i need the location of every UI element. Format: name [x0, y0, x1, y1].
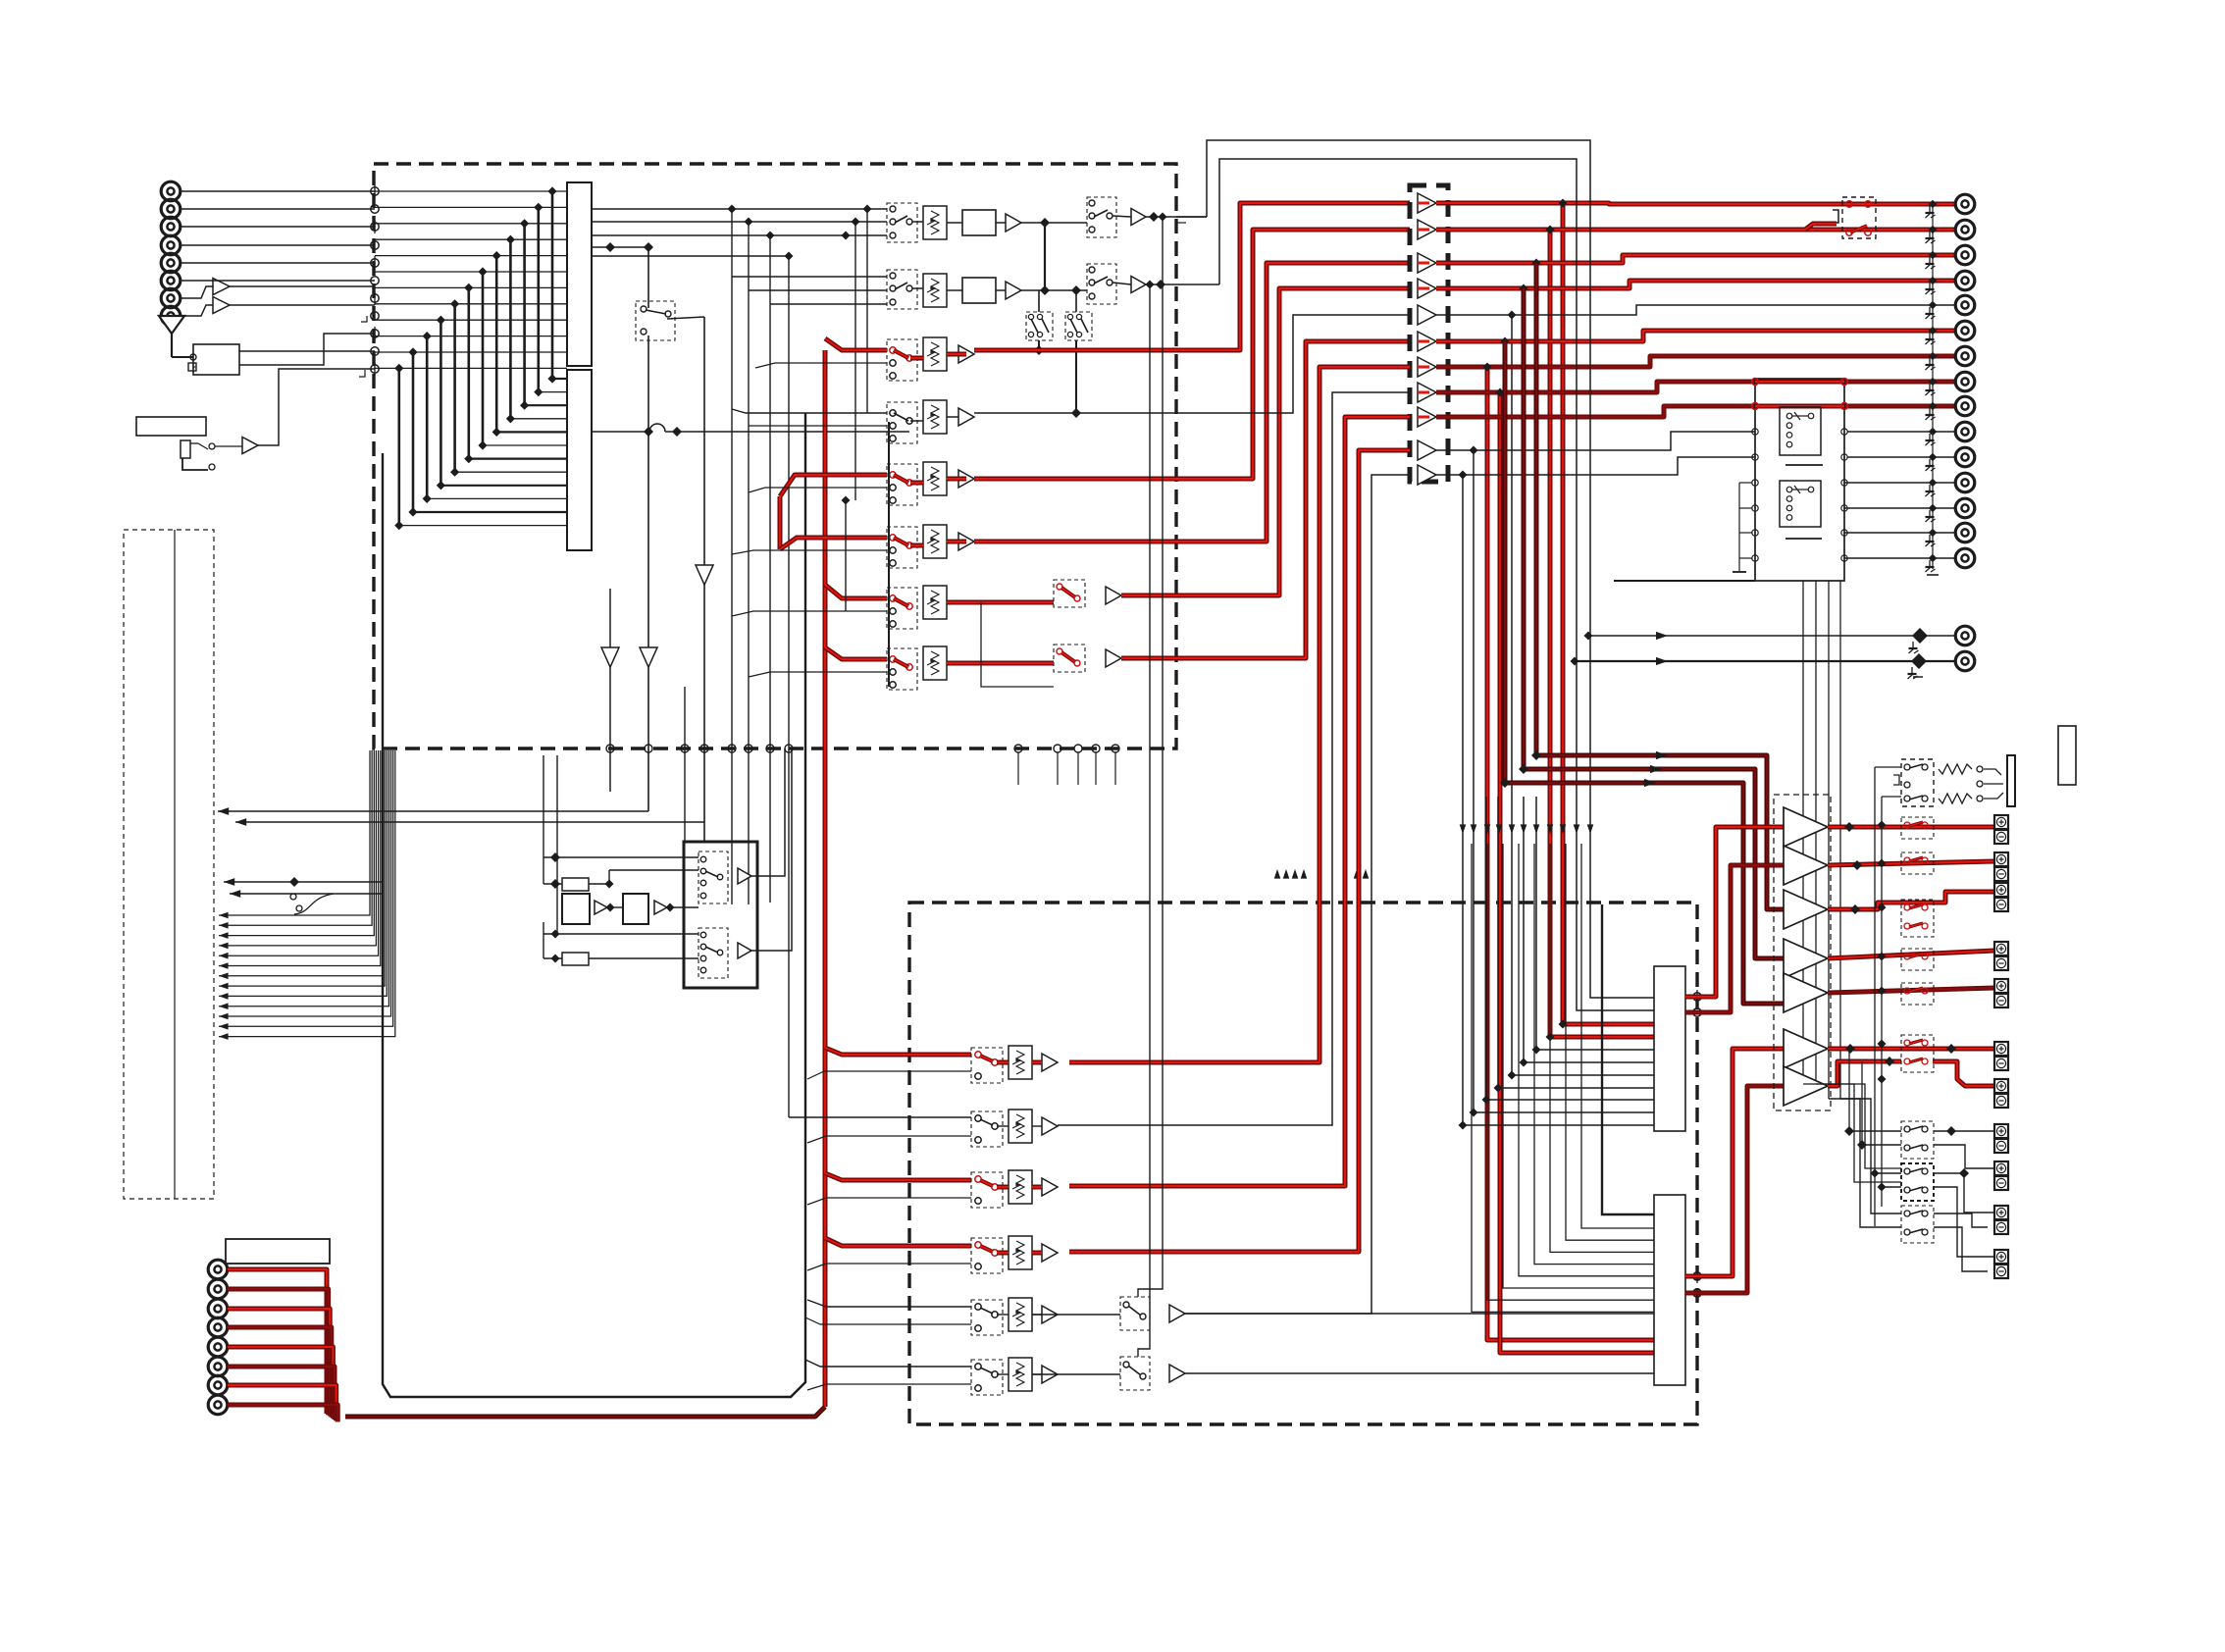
- dsp buffer y=1209: [1042, 1178, 1058, 1196]
- clock block: [623, 894, 648, 924]
- bottom RCA jack 7: [208, 1375, 228, 1395]
- matrix lower row 6: [483, 444, 567, 446]
- dsp row 1339 feeds: [807, 1300, 971, 1307]
- selector buffer 4: [1418, 279, 1436, 298]
- output RCA jack row 10: [1955, 422, 1975, 441]
- bottom RCA jack 1: [208, 1260, 228, 1279]
- output RCA jack row 15: [1955, 548, 1975, 568]
- antenna symbol: [159, 316, 184, 334]
- dsp input switch y=1147: [971, 1111, 1003, 1147]
- speaker terminal pair 3: [1994, 883, 2008, 897]
- amp5 output: [1828, 988, 1994, 993]
- dsp upper out to amp2: [1685, 865, 1784, 1012]
- amp3 output jog: [1828, 892, 1994, 909]
- headphone resistor 1: [1939, 764, 1972, 774]
- main-ch feed row to amp5: [1503, 341, 1508, 783]
- ground tick near pin row 376: [359, 370, 365, 377]
- speaker terminal pair 11: [1994, 1250, 2008, 1264]
- subwoofer jacks: [1955, 626, 1975, 645]
- output RCA jack row 9: [1955, 396, 1975, 416]
- selector row 1 drop vertical: [1563, 203, 1654, 1024]
- speaker terminal pair 8: [1994, 1124, 2008, 1138]
- relay out row to jack: [1844, 482, 1956, 484]
- wire U1b out: [230, 304, 375, 306]
- ground tick near pin row 322: [361, 316, 367, 322]
- dsp level resistor y=1339: [1009, 1298, 1032, 1331]
- dsp buffer y=1339: [1042, 1306, 1058, 1323]
- red feed row 610: [825, 585, 887, 598]
- matrix lower row 9: [440, 485, 567, 487]
- RCA input jack J4: [161, 235, 181, 255]
- amp1 output: [1828, 825, 1994, 830]
- dsp 2nd switch row 1339: [1120, 1297, 1150, 1330]
- matrix lower row 5: [496, 431, 567, 433]
- input buffer row y=484: [958, 470, 974, 488]
- dsp row 1082 red pair feed: [825, 1048, 971, 1055]
- selector row 9 output to jack row: [1436, 406, 1956, 417]
- power amp 3: [1784, 890, 1828, 929]
- dsp level resistor y=1082: [1009, 1046, 1032, 1079]
- speaker terminal pair 9: [1994, 1162, 2008, 1175]
- riser dsp row1276 to selector row10: [1069, 450, 1410, 1252]
- sysctl buffer A: [738, 868, 751, 884]
- speaker relay box 2: [1901, 852, 1934, 874]
- red vertical aux: [778, 496, 783, 549]
- dsp lower out to amp6: [1685, 1049, 1784, 1276]
- sysctl buffer B: [738, 943, 751, 958]
- riser row672 to selector row6: [1121, 341, 1410, 658]
- bottom RCA jack 3: [208, 1299, 228, 1318]
- oscillator rect 2: [562, 894, 590, 924]
- sysctl buffer small 2: [654, 901, 667, 914]
- black link rows 610-672 second stage: [981, 602, 1054, 687]
- rec out switch dashed: [1087, 264, 1116, 304]
- relay ground bracket: [1739, 482, 1752, 484]
- dsp level resistor y=1209: [1009, 1170, 1032, 1204]
- selector row 8 drop vertical: [1500, 392, 1654, 1353]
- subwoofer out row 2: [1575, 660, 1956, 662]
- wire S1 down to junction: [647, 336, 649, 432]
- dsp row 1400 feeds: [805, 1360, 971, 1367]
- amp6 output: [1828, 1047, 1994, 1052]
- speaker terminal pair 4: [1994, 942, 2008, 955]
- dsp input switch y=1339: [971, 1300, 1003, 1335]
- matrix column 10 vertical: [426, 336, 429, 499]
- amp7 relay to pair7: [1933, 1061, 1994, 1086]
- relay feeds upper: [1878, 821, 1887, 830]
- rec buffer amp: [1006, 214, 1021, 232]
- dsp buffer y=1147: [1042, 1117, 1058, 1135]
- wire sel A down: [1038, 340, 1040, 350]
- buffer amp U1b: [213, 297, 230, 314]
- relay out row to jack: [1844, 557, 1956, 559]
- wire antenna to tuner: [172, 356, 193, 358]
- selector row 3 drop vertical: [1532, 259, 1541, 268]
- output RCA jack row 14: [1955, 523, 1975, 542]
- bottom RCA jack 4: [208, 1317, 228, 1337]
- oscillator rect 3: [562, 953, 589, 965]
- selector buffer 11: [1418, 465, 1436, 485]
- speaker relay box 7: [1901, 1121, 1934, 1159]
- black feed row 610b: [732, 611, 887, 616]
- output RCA jack row 6: [1955, 321, 1975, 340]
- matrix lower row 12: [399, 525, 567, 527]
- sysctl switch dashed B: [699, 928, 728, 978]
- headphone label box: [2058, 726, 2076, 785]
- selector row 3 output to jack row: [1436, 255, 1956, 263]
- matrix column 12 vertical: [397, 368, 400, 525]
- relay bottom edge extension: [1614, 580, 1755, 582]
- speaker terminal pair 1: [1994, 815, 2008, 829]
- matrix column 8 vertical: [453, 304, 456, 472]
- power amp 4: [1784, 939, 1828, 978]
- input buffer row y=357: [958, 345, 974, 363]
- CPU bus fan: [219, 750, 370, 915]
- wire jack rows to connector column: [181, 190, 376, 192]
- long vertical from record out 1: [1176, 216, 1207, 218]
- relay out row to jack: [1844, 532, 1956, 534]
- input buffer row y=548: [958, 533, 974, 550]
- selector buffer 10: [1418, 440, 1436, 460]
- 2nd stage buffer row 610: [1106, 587, 1121, 604]
- down triangle buffer 2: [601, 647, 619, 667]
- input level resistor row y=357: [923, 337, 947, 371]
- speaker relay box 4: [1901, 949, 1934, 970]
- dsp buffer y=1082: [1042, 1054, 1058, 1071]
- relay out row to jack: [1844, 507, 1956, 509]
- down triangle buffer on vertical: [696, 565, 713, 585]
- down triangle buffer 3: [640, 647, 657, 667]
- sysctl outputs: [751, 749, 785, 876]
- input switch row y=357: [887, 339, 917, 381]
- dsp ic lower: [1654, 1195, 1685, 1385]
- wire boxB top link: [1075, 290, 1077, 312]
- wire U1a out: [230, 285, 375, 287]
- matrix column 5 vertical: [495, 256, 498, 433]
- power amp 5: [1784, 973, 1828, 1012]
- selector buffer 2: [1418, 220, 1436, 239]
- red feed row 672: [825, 647, 887, 659]
- relay red segment row 414: [1755, 404, 1844, 409]
- output mute rail: [1932, 204, 1934, 569]
- record select switch: [887, 270, 917, 309]
- selector row 6 drop vertical: [1501, 337, 1510, 346]
- selector buffer 9: [1418, 407, 1436, 427]
- relay unit outer block: [1755, 379, 1844, 581]
- amp7 feedback vertical: [1861, 1061, 1863, 1145]
- black feed row 548b: [732, 550, 887, 554]
- wire bus1 row D to vertical: [592, 255, 789, 257]
- dsp ic output pins upper: [1693, 993, 1701, 1001]
- rec level resistor: [923, 274, 947, 307]
- amp2 output: [1828, 861, 1994, 865]
- riser arrows through box edge: [1274, 869, 1281, 879]
- wire bus1 row B to record switch: [592, 221, 887, 223]
- matrix row 4 horizontal: [375, 238, 567, 240]
- bottom jack wire 3: [228, 1309, 330, 1416]
- output RCA jack row 7: [1955, 346, 1975, 366]
- front aux jack: [181, 440, 190, 458]
- matrix row 9 horizontal: [375, 319, 567, 321]
- input level resistor row y=421: [923, 400, 947, 434]
- red feed row 484: [780, 475, 887, 496]
- subwoofer out row 1: [1588, 635, 1956, 637]
- lower dsp input fan: [1581, 844, 1654, 1228]
- buffer amp U2 front input: [242, 438, 258, 454]
- dsp level resistor y=1400: [1009, 1358, 1032, 1391]
- matrix row 3 horizontal: [375, 223, 567, 225]
- wire vertical x=622: [609, 589, 611, 749]
- riser row421 to selector row5: [974, 315, 1410, 413]
- feeds to record switches: [852, 218, 860, 227]
- output RCA jack row 13: [1955, 498, 1975, 518]
- RCA input jack J2: [161, 199, 181, 219]
- relay bottom feed verticals: [1802, 581, 1804, 1084]
- wire bus1 row C to record switch: [592, 234, 887, 236]
- wire front aux to U2: [215, 445, 242, 447]
- output RCA jack row 12: [1955, 473, 1975, 492]
- rec source select dashed box B: [1065, 312, 1092, 340]
- black feed row 672b: [749, 672, 887, 677]
- main-ch feed row to amp3: [1534, 263, 1539, 755]
- output RCA jack row 1: [1955, 194, 1975, 214]
- matrix column 7 vertical: [467, 287, 470, 458]
- matrix lower row 1: [552, 378, 567, 380]
- matrix row 5 horizontal: [375, 255, 567, 257]
- matrix lower row 4: [510, 418, 567, 420]
- dashed box main-board (input/selector board): [374, 164, 1176, 749]
- RCA input jack J8: [161, 306, 181, 326]
- rec buffer block: [962, 278, 996, 303]
- relay vert extend: [1803, 1084, 1901, 1168]
- selector buffer 8: [1418, 383, 1436, 402]
- CPU wire pair mid: [224, 881, 383, 883]
- selector row 11 drop vertical: [1463, 475, 1654, 1125]
- matrix row 7 horizontal: [375, 286, 567, 288]
- 2nd stage buffer row 672: [1106, 649, 1121, 667]
- RCA input jack J1: [161, 181, 181, 201]
- long vertical A x=1185: [1138, 217, 1163, 1297]
- speaker terminal pair 6: [1994, 1042, 2008, 1056]
- red feed row 357: [825, 338, 887, 350]
- sysctl buffer small 1: [595, 901, 607, 914]
- wire U2 to connector column: [258, 369, 375, 445]
- lower relay connections: [1849, 1130, 1901, 1132]
- input switch row y=610: [887, 588, 917, 629]
- staircase black feeds upper dsp ic: [1536, 797, 1654, 1050]
- selector buffer 6: [1418, 332, 1436, 351]
- matrix row 10 horizontal: [375, 336, 567, 337]
- long vertical from S1 area: [703, 317, 705, 842]
- black feeds row 421: [732, 409, 887, 413]
- bottom jack wire 4: [228, 1327, 332, 1418]
- input switch row y=548: [887, 527, 917, 568]
- dsp input switch y=1209: [971, 1172, 1003, 1208]
- buffer amp U1a: [213, 279, 230, 295]
- matrix lower row 7: [469, 458, 567, 460]
- dsp input switch y=1276: [971, 1238, 1003, 1273]
- selector buffer 1: [1418, 193, 1436, 213]
- dsp 2nd buffer row 1400: [1169, 1365, 1185, 1382]
- cross link row1-row2: [1044, 223, 1046, 290]
- bottom label box: [226, 1239, 330, 1264]
- red feed row 548: [780, 538, 887, 549]
- bottom jack wire 8: [228, 1405, 337, 1421]
- bottom jack wire 6: [228, 1367, 335, 1420]
- speaker terminal pair 2: [1994, 852, 2008, 866]
- bottom RCA jack 5: [208, 1337, 228, 1357]
- riser row610 to selector row4: [1121, 288, 1410, 595]
- record row2 output wire: [1146, 284, 1219, 285]
- selector row 5 output to jack row: [1436, 305, 1956, 315]
- riser dsp row1082 to selector row7: [1069, 367, 1410, 1062]
- dashed box front-panel CPU (left): [124, 530, 214, 1199]
- tape-2 relay dashed box: [1842, 197, 1876, 238]
- oscillator rect 1: [562, 878, 589, 891]
- pins right group on box1 bottom edge: [1014, 745, 1022, 752]
- headphone resistor 2: [1939, 794, 1972, 803]
- bottom jack wire 2: [228, 1289, 329, 1415]
- dashed box DSP board (bottom center): [909, 903, 1697, 1424]
- riser row548 to selector row3: [974, 263, 1410, 542]
- dsp 2nd switch row 1400: [1120, 1357, 1150, 1390]
- riser dsp row1339 to selector row11: [1184, 475, 1410, 1314]
- tuner block: [193, 344, 239, 375]
- record row1 contd exit: [1176, 222, 1186, 224]
- bundle crossing arrows: [1460, 824, 1467, 834]
- matrix lower row 8: [455, 471, 567, 473]
- wire jack8 to U1b: [181, 305, 214, 316]
- dsp buffer y=1400: [1042, 1366, 1058, 1383]
- wire row672 resistor to 2nd stage: [947, 661, 1054, 666]
- relay unit inner switch box A: [1780, 407, 1821, 455]
- board pins on box1 bottom edge: [606, 745, 614, 752]
- front panel label box: [136, 417, 206, 436]
- matrix column 6 vertical: [482, 272, 485, 445]
- riser dsp row1209 to selector row9: [1069, 417, 1410, 1186]
- matrix row 12 horizontal: [375, 367, 567, 369]
- dsp input switch y=1400: [971, 1360, 1003, 1395]
- matrix column 9 vertical: [440, 320, 442, 486]
- wire bus2 right with hop: [592, 431, 649, 433]
- dsp row 1276 feeds: [825, 1238, 971, 1246]
- input level resistor row y=610: [923, 586, 947, 619]
- relay to jack rows: [1847, 431, 1956, 433]
- sysctl switch dashed A: [699, 852, 728, 903]
- speaker relay box 9: [1901, 1206, 1934, 1243]
- matrix row 6 horizontal: [375, 271, 567, 273]
- headphone switch dashed box: [1901, 759, 1934, 806]
- wire boxA top link: [1038, 290, 1040, 312]
- rec buffer block: [962, 210, 996, 235]
- dsp level resistor y=1147: [1009, 1110, 1032, 1143]
- speaker relay box 6: [1901, 1035, 1934, 1072]
- dsp input switch y=1082: [971, 1048, 1003, 1083]
- rec source select dashed box A: [1026, 312, 1053, 340]
- matrix column 4 vertical: [509, 239, 512, 419]
- output RCA jack row 5: [1955, 295, 1975, 315]
- power amp 7: [1784, 1066, 1828, 1106]
- dsp buffer y=1276: [1042, 1244, 1058, 1262]
- matrix lower row 11: [413, 511, 567, 513]
- bus IC block upper: [567, 182, 592, 366]
- wire bus1 row A to record switch: [592, 208, 887, 210]
- amp4 output: [1828, 951, 1994, 958]
- selector row 1 output to jack row: [1436, 203, 1956, 204]
- bottom RCA jack 8: [208, 1395, 228, 1415]
- input switch row y=421: [887, 402, 917, 443]
- mode switch S1 dashed: [636, 301, 675, 340]
- power amp 1: [1784, 807, 1828, 847]
- selector row 6 output to jack row: [1436, 331, 1956, 341]
- CPU feed wire A: [218, 810, 648, 812]
- dsp lower out to amp7: [1685, 1086, 1784, 1293]
- long black return vertical U: [383, 413, 805, 1397]
- bus IC block lower: [567, 370, 592, 550]
- output RCA jack row 8: [1955, 372, 1975, 391]
- dsp upper out to amp1: [1685, 827, 1784, 997]
- relay unit pins: [1752, 429, 1758, 435]
- input buffer row y=421: [958, 408, 974, 426]
- bottom jack wire 1: [228, 1269, 327, 1414]
- selector row 10 drop vertical: [1474, 450, 1654, 1112]
- matrix lower row 2: [539, 391, 567, 393]
- dsp level resistor y=1276: [1009, 1236, 1032, 1269]
- record select switch: [887, 203, 917, 242]
- dsp rows 1339/1400 outputs to dsp ic: [1184, 1313, 1654, 1315]
- bottom RCA jack 6: [208, 1357, 228, 1376]
- bottom jack wire 7: [228, 1385, 336, 1420]
- rec out buffer amp: [1131, 277, 1146, 293]
- matrix row 11 horizontal: [375, 351, 567, 353]
- bottom red bundle trunk: [345, 1407, 825, 1417]
- matrix lower row 3: [525, 404, 567, 406]
- selector row 4 output to jack row: [1436, 281, 1956, 288]
- output RCA jack row 2: [1955, 220, 1975, 239]
- sysctl wires: [543, 856, 699, 858]
- rec level resistor: [923, 206, 947, 239]
- selector row 4 drop vertical: [1520, 284, 1528, 293]
- amp6 feedback vertical: [1848, 1049, 1850, 1131]
- matrix row 1 horizontal: [375, 190, 567, 192]
- RCA input jack J6: [161, 271, 181, 290]
- headphone jack: [1977, 766, 1983, 772]
- dsp 2nd buffer row 1339: [1169, 1305, 1185, 1322]
- selector row 10 output to jack row: [1436, 432, 1755, 450]
- input switch row y=484: [887, 464, 917, 505]
- selector buffer 3: [1418, 253, 1436, 273]
- bold dsp feed: [1602, 904, 1654, 1214]
- matrix column 3 vertical: [523, 224, 526, 405]
- speaker relay box 5: [1901, 983, 1934, 1005]
- selector buffer 7: [1418, 357, 1436, 377]
- dsp ic upper: [1654, 966, 1685, 1131]
- wire row610 resistor to 2nd stage: [947, 600, 1054, 605]
- CPU feed wire B: [648, 821, 704, 823]
- selector row 2 drop vertical: [1550, 230, 1654, 1037]
- tape-2 jog on row 234: [1805, 224, 1837, 230]
- 2nd stage switch row 610: [1054, 580, 1085, 607]
- output RCA jack row 11: [1955, 447, 1975, 467]
- selector row 7 drop vertical: [1487, 367, 1654, 1340]
- long vertical B x=1172: [1138, 284, 1150, 1357]
- power amp 6: [1784, 1029, 1828, 1068]
- relay unit inner switch box B: [1780, 481, 1821, 527]
- input level resistor row y=672: [923, 646, 947, 680]
- input level resistor row y=484: [923, 462, 947, 495]
- speaker relay box 8: [1901, 1163, 1934, 1201]
- matrix column 2 vertical: [537, 207, 540, 391]
